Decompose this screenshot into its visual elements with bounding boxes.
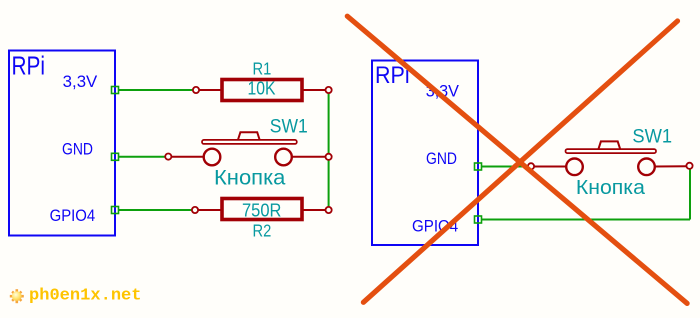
svg-text:3,3V: 3,3V: [63, 73, 98, 91]
svg-text:Кнопка: Кнопка: [214, 166, 286, 189]
svg-text:R2: R2: [253, 220, 272, 240]
svg-text:GND: GND: [426, 150, 457, 168]
svg-text:GPIO4: GPIO4: [50, 207, 96, 225]
svg-text:SW1: SW1: [270, 117, 308, 138]
svg-text:RPi: RPi: [12, 52, 46, 80]
svg-text:750R: 750R: [242, 201, 281, 221]
svg-text:R1: R1: [253, 59, 272, 79]
svg-text:Кнопка: Кнопка: [576, 176, 646, 199]
svg-text:SW1: SW1: [632, 127, 672, 148]
svg-text:GND: GND: [62, 140, 93, 158]
svg-text:ph0en1x.net: ph0en1x.net: [29, 287, 142, 306]
svg-text:10K: 10K: [248, 79, 276, 99]
